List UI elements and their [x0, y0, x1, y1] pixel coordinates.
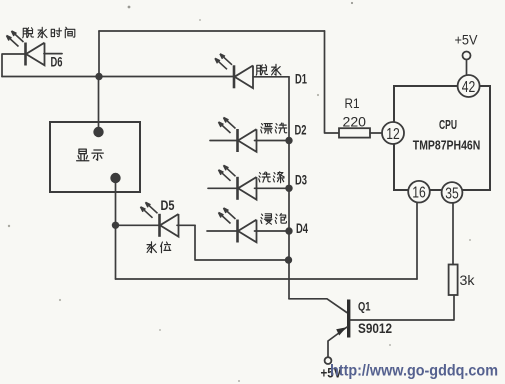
emitter arrowhead (PNP)	[336, 327, 346, 335]
svg-text:12: 12	[386, 126, 400, 143]
svg-text:D2: D2	[295, 123, 307, 138]
label 浸泡 (D4)	[261, 214, 287, 225]
display box terminal dot bottom	[110, 173, 120, 183]
LED D5	[141, 202, 179, 237]
node: D4-bus junction	[285, 227, 292, 234]
node A junction dot	[95, 73, 102, 80]
label 漂洗 (D2)	[261, 123, 287, 134]
svg-text:Q1: Q1	[358, 300, 371, 314]
svg-text:35: 35	[445, 185, 459, 202]
pin 42	[458, 75, 480, 97]
wire: top horizontal bus	[99, 30, 325, 32]
wire: R1 to pin 12	[370, 132, 382, 134]
resistor R1 body	[339, 128, 370, 137]
svg-text:TMP87PH46N: TMP87PH46N	[413, 138, 481, 153]
node: D2-bus junction	[285, 137, 292, 144]
pin 16	[408, 181, 430, 203]
svg-text:16: 16	[412, 185, 426, 202]
LED D6	[7, 31, 45, 66]
svg-text:CPU: CPU	[439, 117, 457, 132]
wire: D3 row	[208, 187, 289, 189]
wire: +5V to pin 42	[466, 60, 468, 76]
wire: 3k to pin35	[452, 203, 454, 264]
label 脱水时间	[23, 27, 75, 38]
terminal: emitter +5V open circle	[325, 357, 332, 364]
svg-text:D1: D1	[295, 72, 307, 87]
wire: vertical from top bus to node A	[98, 31, 100, 77]
wire: R1 feed from top bus	[325, 31, 340, 133]
label 脱水 (D1)	[256, 64, 281, 75]
wire: pin16 vertical drop	[416, 203, 418, 280]
wire: D6 left loop	[2, 54, 25, 77]
wire: collector from bus	[289, 299, 347, 313]
display box 显示	[50, 122, 140, 192]
wire: base to 3k	[351, 295, 455, 320]
svg-text:R1: R1	[345, 95, 360, 111]
wire: D6 anode stub	[44, 53, 62, 55]
svg-text:http://www.go-gddq.com: http://www.go-gddq.com	[330, 363, 498, 380]
svg-text:D4: D4	[296, 221, 308, 236]
label 洗涤 (D3)	[259, 172, 284, 183]
svg-text:42: 42	[462, 79, 476, 96]
LED D3	[219, 165, 257, 200]
wire: LED cathode bus vertical x=289	[288, 77, 290, 299]
svg-text:+5V: +5V	[455, 32, 479, 48]
label 水位 (D5)	[147, 242, 171, 253]
transistor Q1 base bar	[347, 300, 350, 338]
wire: emitter lead	[328, 327, 347, 357]
terminal: +5V open circle	[463, 52, 471, 60]
svg-text:220: 220	[343, 114, 367, 130]
wire: pin16 horizontal rail	[116, 278, 418, 280]
resistor 3k body	[449, 265, 458, 296]
LED D4	[219, 208, 257, 243]
svg-text:3k: 3k	[460, 272, 476, 288]
node: D3-bus junction	[285, 185, 292, 192]
node: D5-bus junction	[285, 256, 292, 263]
CPU box	[394, 86, 490, 190]
wire: D4 row	[207, 230, 289, 232]
svg-text:D5: D5	[161, 198, 175, 213]
label 显示	[77, 149, 104, 161]
svg-text:S9012: S9012	[358, 321, 392, 336]
wire: display box bottom to pin16 rail	[115, 178, 117, 279]
LED D2	[219, 118, 257, 153]
wire: main horizontal rail y=76	[2, 76, 289, 78]
LED D1	[215, 54, 253, 89]
pin 12	[382, 122, 404, 144]
pin 35	[442, 182, 463, 203]
wire: D5 to bus (step)	[195, 225, 289, 260]
scan speckles	[128, 6, 131, 9]
node: D5 anode junction	[112, 222, 119, 229]
wire: D5 row	[116, 224, 196, 226]
display box terminal dot top	[93, 127, 103, 137]
svg-text:D3: D3	[295, 173, 307, 188]
wire: D2 row	[210, 140, 289, 142]
wire: node A down to display box	[98, 77, 100, 133]
svg-text:D6: D6	[51, 55, 63, 70]
